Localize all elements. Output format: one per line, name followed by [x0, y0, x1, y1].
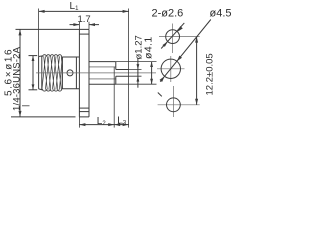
- o1.27 arrow down: [137, 64, 140, 69]
- o4.1 dimension line: [151, 62, 153, 85]
- tick near bottom arrow: [22, 105, 30, 107]
- dimension o16 flange: extension line top: [16, 28, 80, 30]
- L1 arrow right: [123, 10, 129, 13]
- dimension o16 flange: dimension line: [19, 29, 21, 117]
- face view vertical centerline: [171, 24, 174, 118]
- flange inner line top: [79, 33, 89, 35]
- L1 arrow left: [39, 10, 45, 13]
- thread right edge: [61, 57, 63, 90]
- thread OD dimension line: [32, 56, 34, 90]
- svg-text:1.7: 1.7: [78, 14, 91, 25]
- o1.27 arrow up: [137, 76, 140, 81]
- 2-o2.6 arrow upper: [178, 26, 183, 32]
- svg-text:L3: L3: [117, 116, 127, 127]
- flange inner line bottom1: [79, 107, 89, 109]
- center axis line: [36, 72, 156, 74]
- dimension o16 arrow up: [19, 29, 22, 35]
- thread OD ext tick bottom: [29, 89, 38, 91]
- o4.1 extension lines: [116, 62, 157, 85]
- 1.7 dimension extension lines: [79, 22, 89, 29]
- 2-o2.6 leader line: [161, 23, 184, 49]
- middle circle centerline horizontal: [157, 68, 185, 70]
- thread OD arrow down: [32, 84, 35, 89]
- 12.2 arrow down: [195, 99, 198, 105]
- svg-text:ø4.5: ø4.5: [210, 8, 232, 20]
- L1 extension line left: [38, 9, 40, 57]
- mounting hole top: [166, 30, 180, 44]
- svg-text:L2: L2: [97, 116, 107, 127]
- o4.1 arrow down: [150, 79, 153, 84]
- thread OD ext tick top: [29, 55, 38, 57]
- thread section outline crest bumps top: [43, 55, 62, 57]
- dimension o16 flange: extension line bottom: [11, 116, 76, 118]
- thread section outline crest bumps bottom: [43, 89, 62, 91]
- svg-text:L1: L1: [70, 1, 80, 12]
- 1.7 arrow right-pointing: [73, 23, 79, 26]
- dimension o16 arrow down: [19, 111, 22, 117]
- 1.7 arrow left-pointing: [89, 23, 95, 26]
- 12.2 arrow up: [195, 37, 198, 43]
- L1 extension line right (pin end): [128, 9, 130, 128]
- L2 arrow right: [108, 123, 114, 126]
- o4.5 arrow upper: [177, 56, 182, 62]
- 1.7 dimension line outside segments: [70, 24, 100, 26]
- L2/L3 extension line middle: [113, 67, 115, 128]
- connector front face: [38, 57, 40, 89]
- body hole: [67, 70, 73, 76]
- flange plate: [79, 29, 89, 117]
- flange inner line bottom2: [79, 111, 89, 113]
- bottom hole centerline horizontal: [158, 104, 200, 106]
- L2 arrow left: [79, 123, 85, 126]
- cylinder o4.1: [89, 62, 116, 85]
- svg-text:1/4-36UNS-2A: 1/4-36UNS-2A: [12, 46, 23, 111]
- 2-o2.6 arrow lower: [162, 42, 167, 47]
- bottom hole leader tick: [158, 93, 162, 97]
- svg-text:2-ø2.6: 2-ø2.6: [152, 8, 184, 20]
- L2 extension line left: [78, 117, 80, 128]
- L3 dimension line: [114, 124, 128, 126]
- L1 dimension line: [39, 10, 129, 12]
- cylinder bore lines: [89, 67, 116, 79]
- o4.1 arrow up: [150, 62, 153, 67]
- 12.2 dimension line: [196, 37, 198, 105]
- o1.27 dimension line: [137, 58, 139, 88]
- pin o1.27: [116, 70, 129, 77]
- L2 dimension line: [79, 124, 114, 126]
- thread hatch lines: [42, 56, 63, 89]
- svg-text:ø4.1: ø4.1: [142, 36, 154, 59]
- thread chamfer: [39, 56, 43, 90]
- svg-text:12.2±0.05: 12.2±0.05: [205, 53, 216, 95]
- o4.5 arrow lower: [160, 76, 165, 82]
- body hex section: [62, 57, 79, 89]
- L3 arrow left: [114, 123, 120, 126]
- flange boss circle: [161, 59, 180, 78]
- o1.27 extension lines: [129, 70, 142, 77]
- top hole centerline horizontal: [159, 36, 200, 38]
- L3 arrow right: [123, 123, 129, 126]
- thread OD arrow up: [32, 56, 35, 61]
- mounting hole bottom: [167, 98, 181, 112]
- thread start edge: [41, 56, 43, 90]
- o4.5 leader line: [160, 20, 211, 82]
